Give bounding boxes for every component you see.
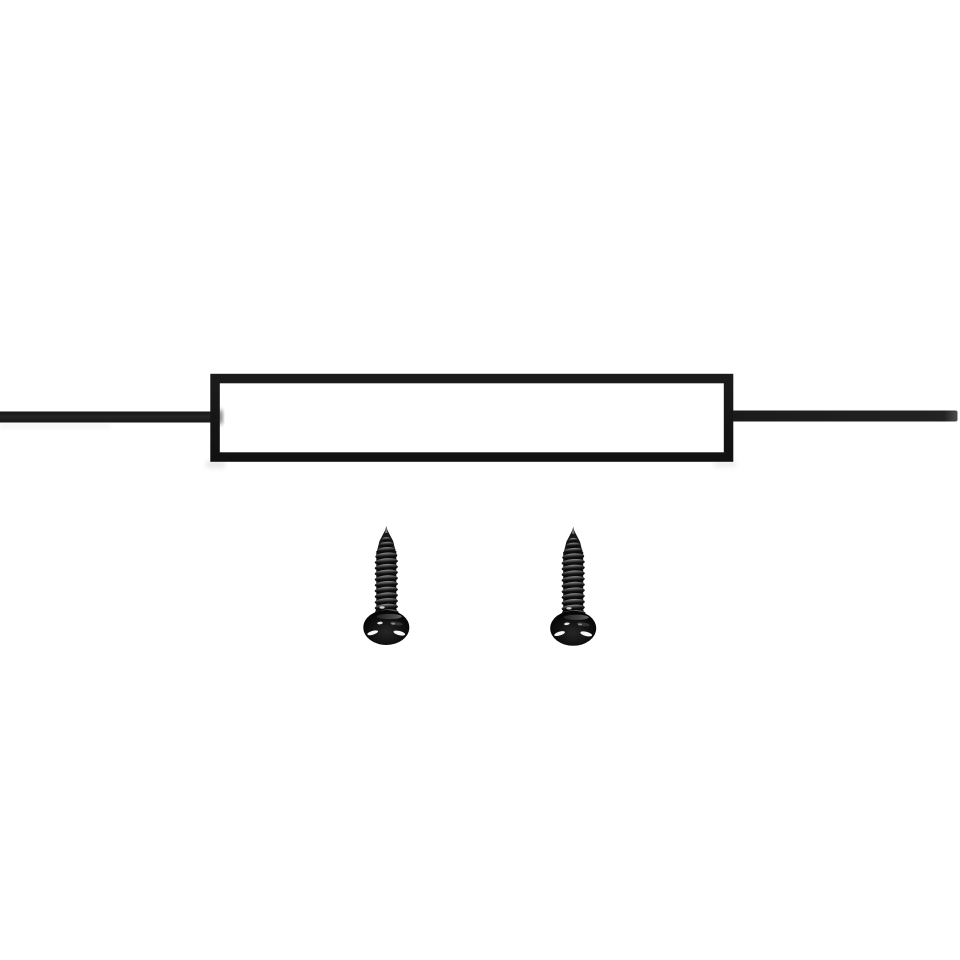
resistor R1 body (rectangular frame) xyxy=(215,379,729,458)
wire left lead xyxy=(0,412,212,423)
faint shadow under left rod xyxy=(0,424,110,428)
shadow under bottom-left corner xyxy=(206,461,225,468)
screw 2 (right mounting screw) xyxy=(550,527,596,646)
shadow under bottom-right corner xyxy=(714,461,736,467)
junction blob where left lead meets body xyxy=(218,410,222,424)
screw 1 (left mounting screw) xyxy=(363,526,409,645)
wire right lead xyxy=(731,411,958,422)
